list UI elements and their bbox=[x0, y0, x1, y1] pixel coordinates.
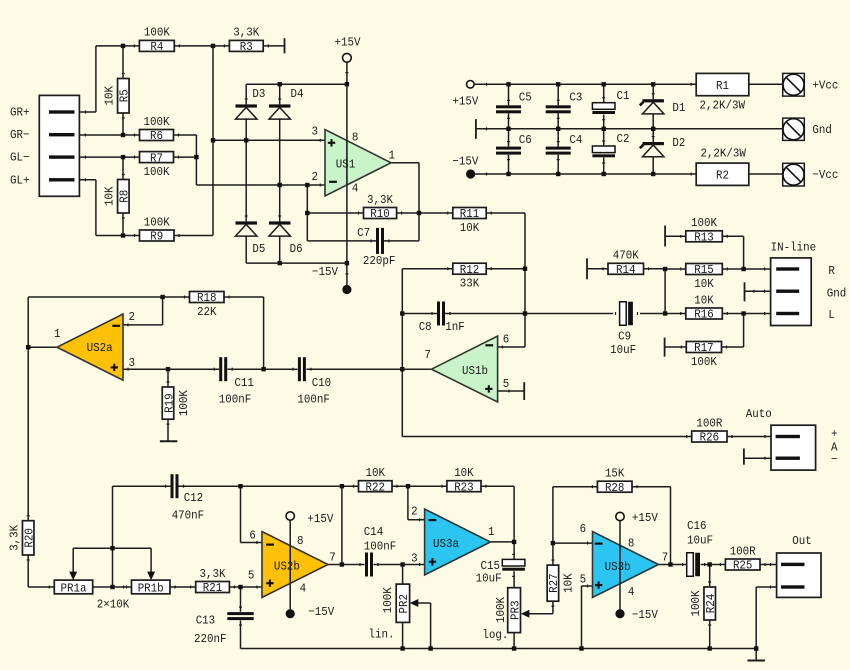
svg-text:3: 3 bbox=[129, 356, 136, 370]
svg-text:−15V: −15V bbox=[312, 265, 339, 279]
svg-text:220pF: 220pF bbox=[363, 254, 396, 268]
svg-text:R19: R19 bbox=[162, 393, 176, 413]
svg-text:+15V: +15V bbox=[632, 511, 659, 525]
svg-text:Gnd: Gnd bbox=[812, 123, 832, 137]
svg-text:100nF: 100nF bbox=[219, 393, 252, 407]
svg-text:R28: R28 bbox=[605, 481, 625, 495]
svg-text:100R: 100R bbox=[696, 416, 722, 430]
svg-text:100nF: 100nF bbox=[364, 539, 397, 553]
svg-text:100R: 100R bbox=[730, 544, 756, 558]
svg-text:100K: 100K bbox=[691, 216, 718, 230]
svg-text:R25: R25 bbox=[733, 559, 753, 573]
svg-text:100K: 100K bbox=[381, 587, 395, 614]
svg-text:R21: R21 bbox=[203, 581, 223, 595]
svg-text:C8: C8 bbox=[419, 320, 432, 334]
svg-text:GL+: GL+ bbox=[10, 173, 30, 187]
svg-text:220nF: 220nF bbox=[194, 632, 227, 646]
svg-text:10uF: 10uF bbox=[687, 533, 713, 547]
svg-text:US2a: US2a bbox=[87, 341, 113, 355]
svg-text:PR1a: PR1a bbox=[61, 581, 87, 595]
svg-text:R: R bbox=[828, 264, 835, 278]
svg-text:C2: C2 bbox=[617, 132, 630, 146]
svg-text:R16: R16 bbox=[694, 308, 714, 322]
svg-text:−15V: −15V bbox=[308, 605, 335, 619]
svg-text:100K: 100K bbox=[144, 165, 171, 179]
svg-text:5: 5 bbox=[580, 572, 587, 586]
svg-text:4: 4 bbox=[628, 585, 635, 599]
svg-text:2: 2 bbox=[411, 504, 418, 518]
svg-text:1: 1 bbox=[54, 327, 61, 341]
svg-text:L: L bbox=[828, 308, 835, 322]
svg-text:D4: D4 bbox=[291, 87, 304, 101]
svg-text:10K: 10K bbox=[694, 277, 714, 291]
svg-text:3,3K: 3,3K bbox=[233, 26, 260, 40]
svg-text:R4: R4 bbox=[150, 40, 163, 54]
svg-text:100K: 100K bbox=[689, 590, 703, 617]
svg-text:4: 4 bbox=[352, 181, 359, 195]
svg-text:10K: 10K bbox=[454, 466, 474, 480]
svg-text:−15V: −15V bbox=[452, 154, 479, 168]
svg-text:5: 5 bbox=[248, 568, 255, 582]
svg-text:C13: C13 bbox=[196, 614, 216, 628]
svg-text:R5: R5 bbox=[118, 89, 132, 102]
svg-text:100nF: 100nF bbox=[297, 393, 330, 407]
svg-text:C3: C3 bbox=[569, 91, 582, 105]
svg-text:US3a: US3a bbox=[433, 537, 459, 551]
svg-text:R12: R12 bbox=[460, 263, 480, 277]
svg-text:10K: 10K bbox=[102, 85, 116, 105]
svg-text:R3: R3 bbox=[240, 40, 253, 54]
svg-text:2×10K: 2×10K bbox=[97, 598, 130, 612]
svg-text:R20: R20 bbox=[23, 528, 37, 548]
svg-text:10K: 10K bbox=[460, 221, 480, 235]
svg-text:C5: C5 bbox=[519, 91, 532, 105]
svg-text:R27: R27 bbox=[547, 573, 561, 593]
svg-text:10uF: 10uF bbox=[610, 343, 636, 357]
svg-text:6: 6 bbox=[249, 528, 256, 542]
svg-text:US2b: US2b bbox=[274, 560, 300, 574]
svg-text:5: 5 bbox=[503, 377, 510, 391]
svg-text:100K: 100K bbox=[177, 389, 191, 416]
svg-text:2: 2 bbox=[312, 170, 319, 184]
svg-text:C12: C12 bbox=[184, 491, 204, 505]
svg-text:100K: 100K bbox=[494, 596, 508, 623]
svg-text:10K: 10K bbox=[102, 186, 116, 206]
svg-text:GR−: GR− bbox=[10, 128, 30, 142]
svg-text:R22: R22 bbox=[366, 480, 386, 494]
svg-text:+15V: +15V bbox=[307, 512, 334, 526]
svg-text:7: 7 bbox=[662, 550, 669, 564]
svg-text:GL−: GL− bbox=[10, 151, 30, 165]
svg-text:R1: R1 bbox=[716, 79, 729, 93]
svg-text:R13: R13 bbox=[694, 231, 714, 245]
svg-text:470nF: 470nF bbox=[172, 508, 205, 522]
svg-text:log.: log. bbox=[482, 628, 508, 642]
svg-text:+15V: +15V bbox=[335, 35, 362, 49]
svg-text:R24: R24 bbox=[704, 594, 718, 614]
svg-text:100K: 100K bbox=[144, 26, 171, 40]
svg-text:10K: 10K bbox=[694, 293, 714, 307]
svg-text:D5: D5 bbox=[252, 242, 265, 256]
svg-text:15K: 15K bbox=[605, 467, 625, 481]
svg-text:6: 6 bbox=[503, 333, 510, 347]
svg-text:+15V: +15V bbox=[452, 94, 479, 108]
svg-text:2,2K/3W: 2,2K/3W bbox=[700, 99, 746, 113]
svg-text:1: 1 bbox=[488, 525, 495, 539]
svg-text:7: 7 bbox=[329, 550, 336, 564]
svg-text:−Vcc: −Vcc bbox=[812, 168, 838, 182]
svg-text:100K: 100K bbox=[144, 115, 171, 129]
svg-text:C9: C9 bbox=[618, 330, 631, 344]
svg-text:R2: R2 bbox=[716, 169, 729, 183]
svg-text:D2: D2 bbox=[672, 136, 685, 150]
svg-text:C16: C16 bbox=[687, 519, 707, 533]
svg-text:D6: D6 bbox=[290, 242, 303, 256]
svg-text:3: 3 bbox=[411, 551, 418, 565]
svg-text:R9: R9 bbox=[150, 230, 163, 244]
svg-text:470K: 470K bbox=[613, 249, 640, 263]
svg-text:D1: D1 bbox=[672, 101, 685, 115]
svg-text:PR3: PR3 bbox=[508, 601, 522, 621]
svg-text:+Vcc: +Vcc bbox=[812, 79, 838, 93]
svg-text:3,3K: 3,3K bbox=[200, 567, 227, 581]
svg-text:R11: R11 bbox=[460, 207, 480, 221]
svg-text:1: 1 bbox=[389, 148, 396, 162]
svg-text:Out: Out bbox=[792, 534, 812, 548]
svg-text:IN-line: IN-line bbox=[771, 241, 817, 255]
svg-text:R14: R14 bbox=[616, 263, 636, 277]
svg-text:C4: C4 bbox=[569, 133, 582, 147]
svg-text:PR1b: PR1b bbox=[138, 581, 164, 595]
svg-text:GR+: GR+ bbox=[10, 105, 30, 119]
svg-text:PR2: PR2 bbox=[397, 594, 411, 614]
svg-text:4: 4 bbox=[300, 582, 307, 596]
svg-text:Gnd: Gnd bbox=[827, 287, 847, 301]
svg-text:C11: C11 bbox=[234, 376, 254, 390]
svg-text:7: 7 bbox=[424, 348, 431, 362]
svg-text:C6: C6 bbox=[519, 133, 532, 147]
svg-text:10K: 10K bbox=[366, 466, 386, 480]
svg-text:10uF: 10uF bbox=[476, 572, 502, 586]
svg-text:+: + bbox=[831, 427, 838, 441]
svg-text:22K: 22K bbox=[197, 305, 217, 319]
svg-text:2,2K/3W: 2,2K/3W bbox=[700, 147, 746, 161]
svg-text:Auto: Auto bbox=[746, 407, 772, 421]
svg-text:C7: C7 bbox=[357, 226, 370, 240]
svg-text:R18: R18 bbox=[197, 291, 217, 305]
svg-text:8: 8 bbox=[352, 130, 359, 144]
svg-text:R23: R23 bbox=[454, 480, 474, 494]
svg-text:3,3K: 3,3K bbox=[367, 193, 394, 207]
svg-text:8: 8 bbox=[628, 536, 635, 550]
svg-text:−15V: −15V bbox=[632, 608, 659, 622]
svg-text:US1b: US1b bbox=[462, 364, 488, 378]
svg-text:100K: 100K bbox=[691, 355, 718, 369]
svg-text:33K: 33K bbox=[460, 277, 480, 291]
svg-text:2: 2 bbox=[129, 310, 136, 324]
svg-text:8: 8 bbox=[297, 534, 304, 548]
svg-text:6: 6 bbox=[580, 522, 587, 536]
svg-text:R26: R26 bbox=[700, 431, 720, 445]
svg-text:US3b: US3b bbox=[605, 560, 631, 574]
svg-text:C14: C14 bbox=[364, 525, 384, 539]
svg-text:−: − bbox=[831, 453, 838, 467]
svg-text:1nF: 1nF bbox=[445, 320, 465, 334]
svg-text:lin.: lin. bbox=[369, 628, 395, 642]
svg-text:10K: 10K bbox=[562, 573, 576, 593]
svg-text:C1: C1 bbox=[617, 89, 630, 103]
svg-text:US1: US1 bbox=[336, 157, 356, 171]
svg-text:3,3K: 3,3K bbox=[7, 524, 21, 551]
svg-text:D3: D3 bbox=[252, 87, 265, 101]
svg-text:C10: C10 bbox=[312, 376, 332, 390]
svg-text:R17: R17 bbox=[694, 341, 714, 355]
svg-text:R15: R15 bbox=[694, 263, 714, 277]
svg-text:3: 3 bbox=[312, 124, 319, 138]
svg-text:R8: R8 bbox=[118, 190, 132, 203]
svg-text:R7: R7 bbox=[150, 151, 163, 165]
svg-text:100K: 100K bbox=[144, 215, 171, 229]
svg-text:R10: R10 bbox=[370, 207, 390, 221]
svg-text:R6: R6 bbox=[150, 129, 163, 143]
